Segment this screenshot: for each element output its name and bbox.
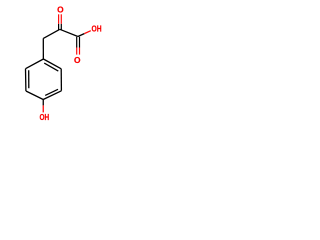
carboxyl C=O double bond, black half near C, line 1 <box>76 37 78 48</box>
svg-text:OH: OH <box>40 112 50 122</box>
carboxyl C=O double bond, black half near C, line 2 <box>79 37 81 48</box>
benzene ring bond C5-C6 (left edge, outer) <box>25 69 27 91</box>
benzene ring bond C2-C3 (right edge) <box>60 69 62 91</box>
bond C(carboxyl)-OH, black half near C <box>78 34 84 37</box>
svg-text:O: O <box>57 5 64 15</box>
carboxyl C=O double bond, red half near O, line 2 <box>79 48 81 55</box>
svg-text:OH: OH <box>92 24 102 34</box>
benzene ring double bond inner line C3-C4 <box>45 89 58 95</box>
bond C(carboxyl)-OH, red half near O <box>84 31 91 34</box>
benzene ring bond C1-C2 (top to upper-right, outer) <box>43 59 61 69</box>
bond CH2-C(ketone) <box>43 29 60 38</box>
ketone C=O double bond, black half near C, line 2 <box>60 24 62 30</box>
ketone C=O double bond, black half near C, line 1 <box>58 24 60 30</box>
ketone C=O double bond, red half near O, line 2 <box>60 14 62 23</box>
bond C1-CH2 (vertical) <box>42 38 44 59</box>
benzene ring bond C6-C1 (upper-left) <box>26 59 44 69</box>
carboxyl C=O double bond, red half near O, line 1 <box>76 48 78 55</box>
benzene ring double bond inner line C5-C6 <box>28 70 30 88</box>
ketone C=O double bond, red half near O, line 1 <box>58 14 60 23</box>
benzene ring double bond inner line C1-C2 <box>44 63 58 71</box>
bond C4-OH (phenol), black half near C <box>42 100 44 106</box>
benzene ring bond C4-C5 (bottom to lower-left) <box>26 91 43 100</box>
bond C(ketone)-C(carboxyl) <box>60 29 78 36</box>
svg-text:O: O <box>74 55 81 65</box>
benzene ring bond C3-C4 (lower-right, outer) <box>43 91 61 100</box>
bond C4-OH (phenol), red half near O <box>42 105 44 112</box>
